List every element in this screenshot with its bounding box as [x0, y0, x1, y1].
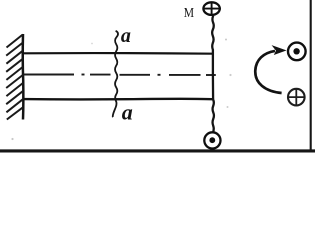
frame bottom border [0, 149, 315, 152]
beam bottom line [23, 98, 214, 101]
right couple circle bottom (cross, into page) [288, 89, 305, 106]
moment rotation arrow (arc) [255, 51, 281, 93]
beam top line [23, 52, 214, 55]
fixed support wall line [21, 34, 24, 120]
svg-text:a: a [122, 99, 133, 124]
beam end line to moment couple [212, 16, 214, 133]
svg-text:a: a [121, 25, 131, 47]
wall hatching [6, 35, 23, 120]
beam centerline (dash-dot) [24, 74, 216, 77]
svg-text:M: M [184, 6, 195, 21]
top couple circle (cross, into page) [203, 2, 221, 15]
right couple circle top (dot, out of page) [288, 43, 306, 61]
frame right border [310, 0, 312, 152]
section line a-a (wavy) [113, 31, 118, 117]
moment arrow head [273, 46, 286, 55]
bottom couple circle (dot, out of page) [204, 132, 220, 148]
scan specks [11, 39, 231, 141]
